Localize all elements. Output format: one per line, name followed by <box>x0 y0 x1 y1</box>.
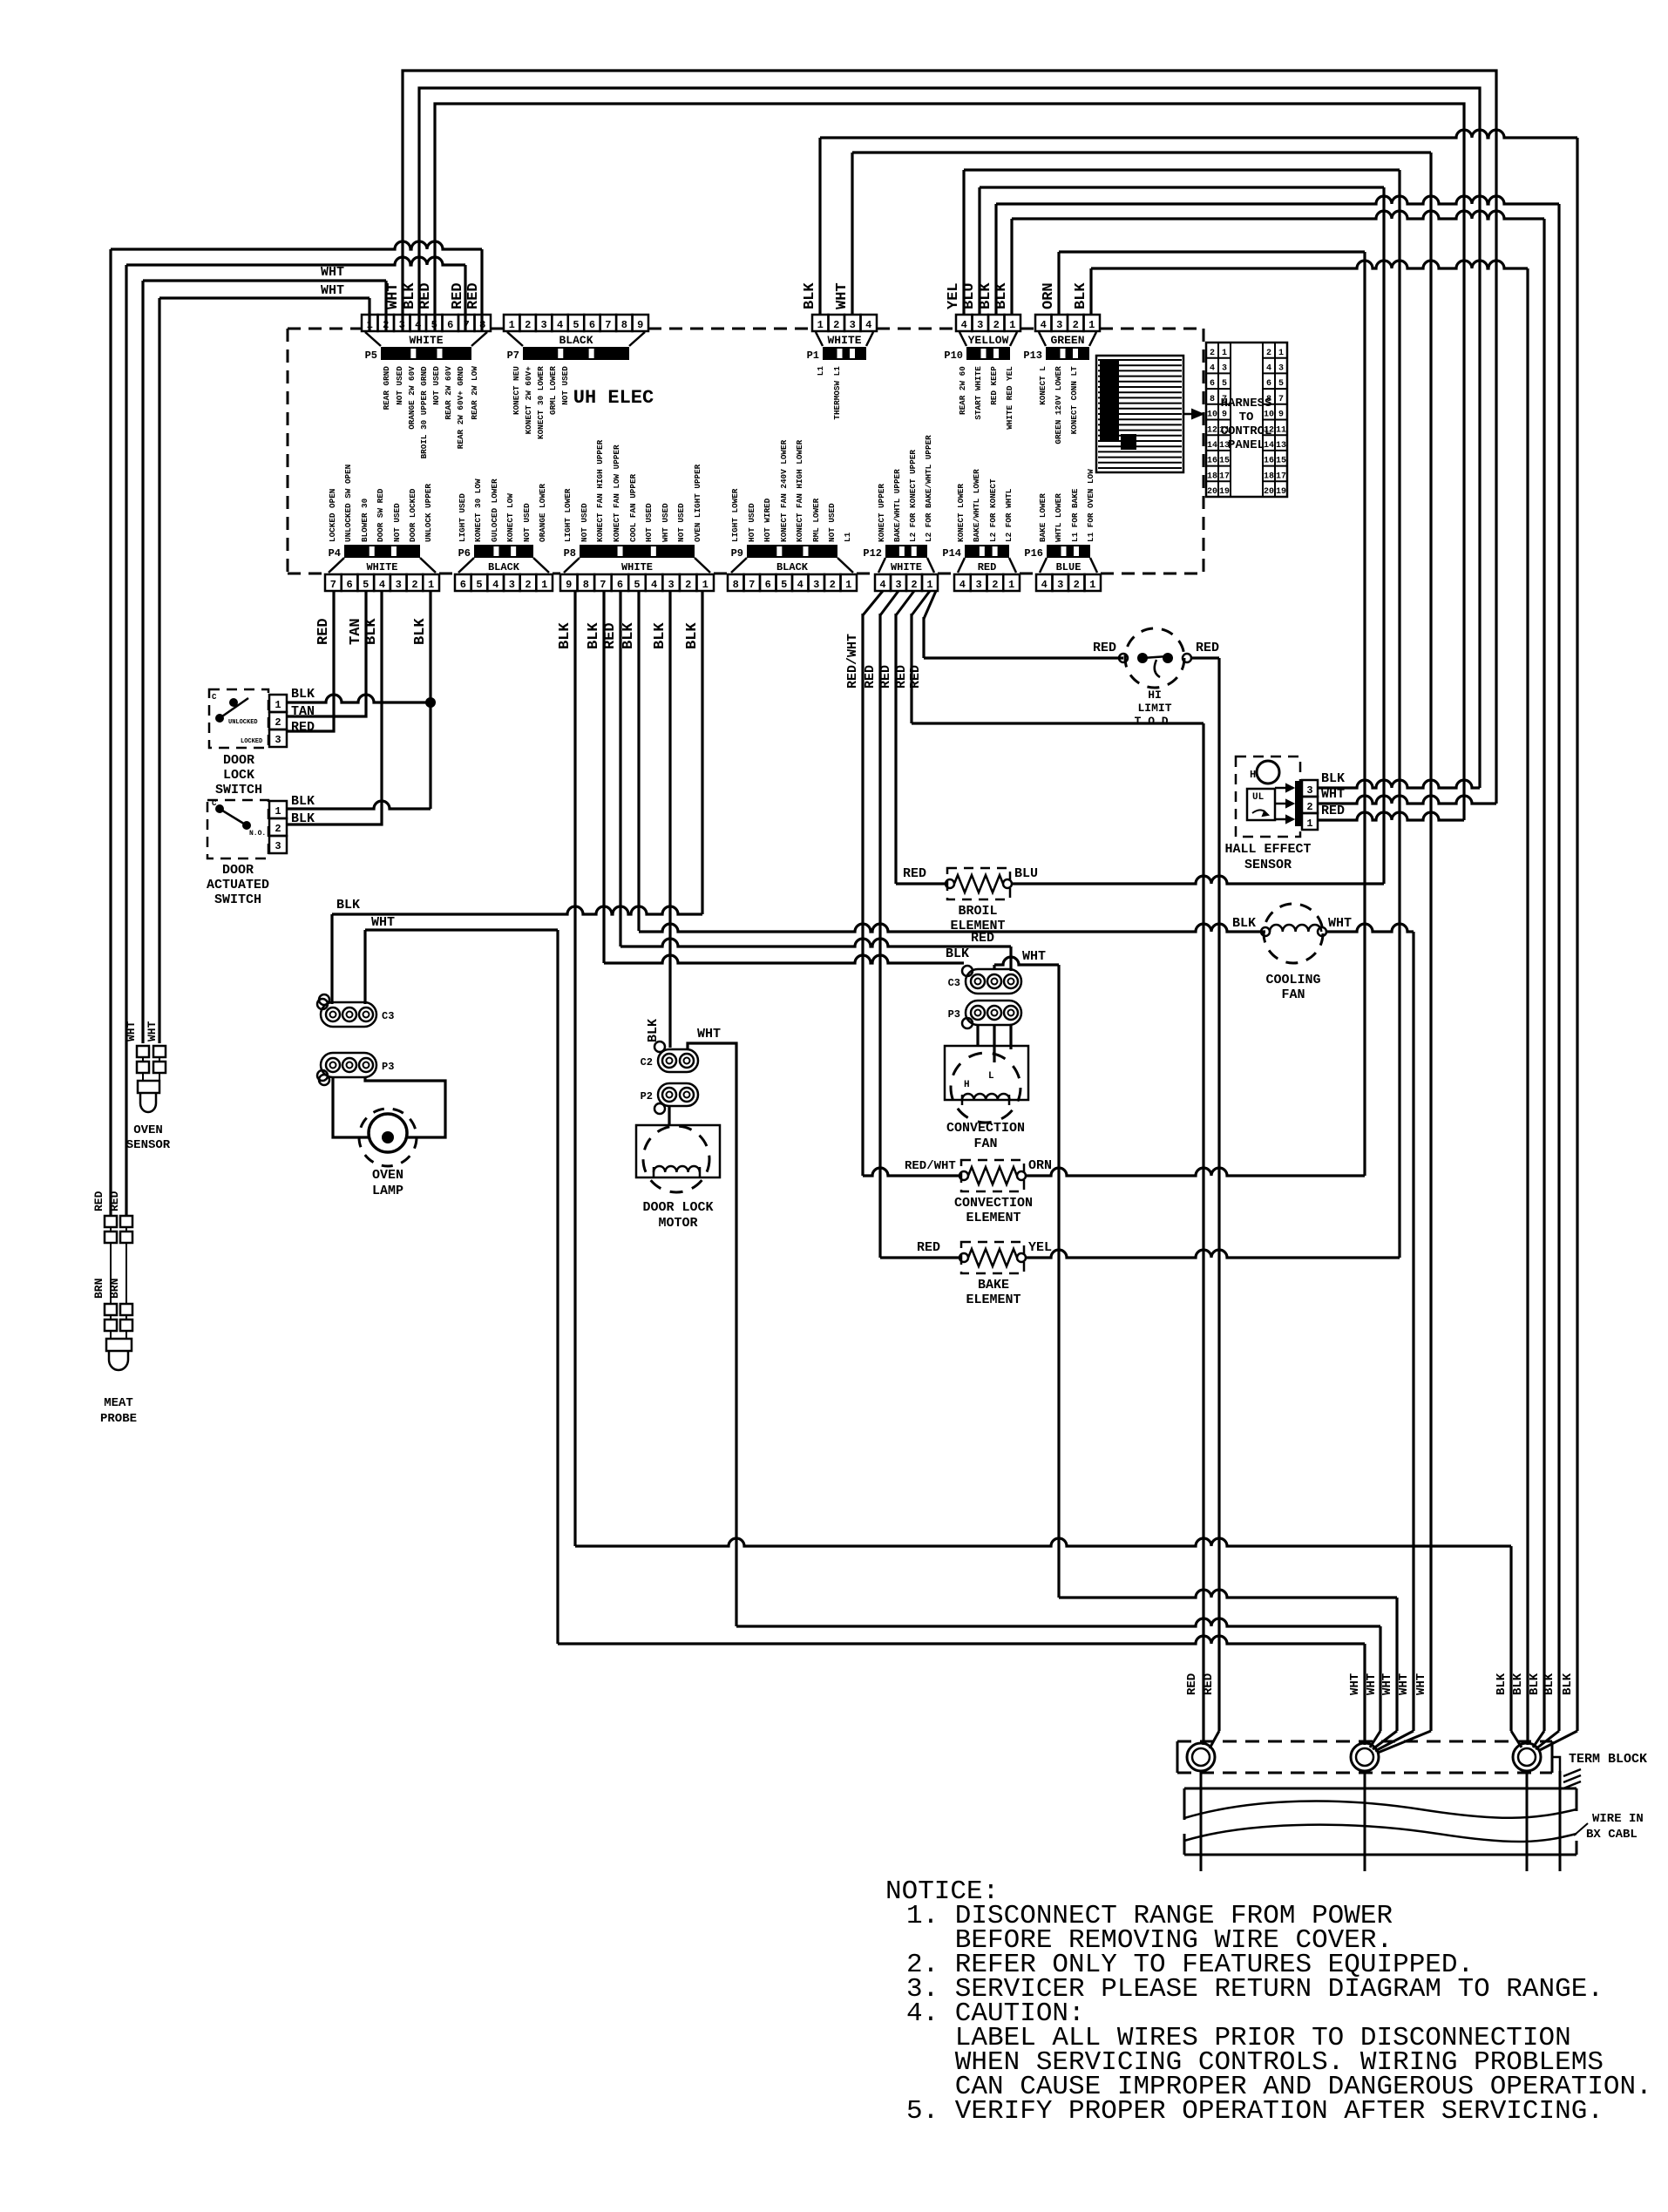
svg-text:P9: P9 <box>731 547 743 560</box>
svg-text:ORANGE LOWER: ORANGE LOWER <box>538 484 547 542</box>
svg-text:H: H <box>964 1080 970 1090</box>
svg-text:WHITE: WHITE <box>891 561 922 573</box>
svg-text:17: 17 <box>1219 472 1230 481</box>
svg-text:PANEL: PANEL <box>1228 438 1265 452</box>
svg-text:C2: C2 <box>641 1056 653 1069</box>
svg-text:9: 9 <box>1222 411 1227 420</box>
svg-text:C: C <box>212 799 217 808</box>
svg-text:2: 2 <box>1266 349 1271 358</box>
svg-text:1: 1 <box>1306 818 1312 830</box>
svg-text:BLK: BLK <box>412 618 429 645</box>
svg-text:2: 2 <box>411 579 417 591</box>
svg-text:1: 1 <box>541 579 547 591</box>
svg-text:BLK: BLK <box>1073 282 1089 309</box>
svg-text:KONECT L: KONECT L <box>1038 366 1048 405</box>
svg-text:RED: RED <box>978 561 997 573</box>
svg-text:BLK: BLK <box>646 1019 661 1042</box>
svg-text:17: 17 <box>1276 472 1286 481</box>
svg-text:YELLOW: YELLOW <box>968 334 1009 347</box>
svg-text:6: 6 <box>1266 379 1271 389</box>
svg-text:BLK: BLK <box>1561 1673 1575 1695</box>
svg-text:DOOR LOCKED: DOOR LOCKED <box>408 488 417 542</box>
svg-text:16: 16 <box>1207 457 1217 466</box>
svg-text:WHT: WHT <box>1022 949 1046 964</box>
svg-text:KONECT 30 LOW: KONECT 30 LOW <box>473 478 483 542</box>
svg-text:WHT: WHT <box>321 265 344 280</box>
svg-text:OVEN: OVEN <box>133 1123 163 1137</box>
svg-text:CONVECTION: CONVECTION <box>946 1121 1025 1136</box>
svg-text:WHTL LOWER: WHTL LOWER <box>1054 493 1063 542</box>
svg-text:BAKE/WHTL LOWER: BAKE/WHTL LOWER <box>972 469 981 542</box>
svg-text:3: 3 <box>1222 364 1227 374</box>
svg-text:OVEN: OVEN <box>372 1168 403 1183</box>
svg-text:2: 2 <box>1210 349 1215 358</box>
svg-text:2: 2 <box>833 319 839 331</box>
svg-text:2: 2 <box>1073 319 1079 331</box>
svg-text:WHT: WHT <box>1380 1673 1394 1695</box>
svg-text:7: 7 <box>600 579 606 591</box>
svg-text:KONECT NEU: KONECT NEU <box>512 366 521 415</box>
svg-text:TO: TO <box>1239 411 1254 424</box>
svg-text:18: 18 <box>1264 472 1274 481</box>
svg-text:3: 3 <box>976 579 982 591</box>
svg-text:WHITE: WHITE <box>621 561 653 573</box>
svg-text:HALL EFFECT: HALL EFFECT <box>1224 842 1311 857</box>
svg-text:L2 FOR KONECT UPPER: L2 FOR KONECT UPPER <box>908 450 918 542</box>
svg-text:THERMOSW L1: THERMOSW L1 <box>832 366 842 420</box>
svg-text:3: 3 <box>275 734 281 746</box>
svg-text:TAN: TAN <box>291 704 315 719</box>
svg-text:KONECT CONN LT: KONECT CONN LT <box>1069 366 1079 435</box>
svg-text:GULOCED LOWER: GULOCED LOWER <box>490 478 499 542</box>
svg-text:RED: RED <box>465 282 482 309</box>
svg-text:TAN: TAN <box>348 618 364 645</box>
svg-text:SWITCH: SWITCH <box>214 892 261 907</box>
svg-text:L1: L1 <box>843 532 852 542</box>
svg-text:BAKE LOWER: BAKE LOWER <box>1038 493 1048 542</box>
svg-text:3: 3 <box>813 579 819 591</box>
svg-text:NOT USED: NOT USED <box>676 503 686 542</box>
svg-text:START WHITE: START WHITE <box>973 366 983 420</box>
svg-text:RED: RED <box>291 720 315 735</box>
svg-text:GREEN 120V LOWER: GREEN 120V LOWER <box>1054 366 1063 444</box>
svg-text:KONECT UPPER: KONECT UPPER <box>877 484 886 542</box>
svg-text:BLK: BLK <box>1495 1673 1509 1695</box>
svg-text:TERM BLOCK: TERM BLOCK <box>1569 1752 1647 1767</box>
svg-text:2: 2 <box>525 579 531 591</box>
svg-text:9: 9 <box>1278 411 1284 420</box>
svg-text:6: 6 <box>460 579 466 591</box>
svg-text:RED: RED <box>878 665 893 689</box>
svg-text:P16: P16 <box>1024 547 1043 560</box>
svg-text:4: 4 <box>492 579 498 591</box>
svg-text:DOOR SW RED: DOOR SW RED <box>376 488 385 542</box>
svg-text:1: 1 <box>817 319 824 331</box>
svg-text:12: 12 <box>1207 425 1217 435</box>
svg-text:1: 1 <box>926 579 932 591</box>
svg-text:RED: RED <box>1093 641 1116 655</box>
svg-text:1: 1 <box>1088 319 1095 331</box>
svg-text:9: 9 <box>566 579 572 591</box>
svg-text:C3: C3 <box>382 1010 394 1022</box>
svg-text:2: 2 <box>525 319 531 331</box>
svg-text:WHT: WHT <box>1414 1673 1428 1695</box>
svg-text:BLK: BLK <box>993 282 1010 309</box>
svg-text:3: 3 <box>1278 364 1284 374</box>
svg-text:N.O.: N.O. <box>249 830 266 838</box>
svg-text:2: 2 <box>275 716 281 729</box>
svg-text:8: 8 <box>583 579 589 591</box>
svg-text:1: 1 <box>845 579 851 591</box>
svg-text:1: 1 <box>702 579 709 591</box>
svg-text:UL: UL <box>1252 792 1265 803</box>
svg-text:ELEMENT: ELEMENT <box>966 1293 1020 1307</box>
svg-text:LIGHT USED: LIGHT USED <box>458 493 467 542</box>
svg-text:RED: RED <box>1321 804 1345 818</box>
svg-text:RED: RED <box>863 665 878 689</box>
svg-text:2: 2 <box>993 319 1000 331</box>
svg-text:L2 FOR WHTL: L2 FOR WHTL <box>1004 488 1014 542</box>
svg-text:L2 FOR KONECT: L2 FOR KONECT <box>988 478 998 542</box>
svg-text:SENSOR: SENSOR <box>1244 858 1292 872</box>
svg-text:1: 1 <box>428 579 434 591</box>
svg-text:GRML LOWER: GRML LOWER <box>548 366 558 415</box>
svg-text:WHT: WHT <box>146 1021 159 1042</box>
svg-text:RED: RED <box>971 931 994 946</box>
svg-text:6: 6 <box>617 579 623 591</box>
svg-text:3: 3 <box>1057 579 1063 591</box>
svg-text:5: 5 <box>363 579 369 591</box>
svg-text:BLK: BLK <box>291 794 315 809</box>
svg-text:BROIL: BROIL <box>958 904 997 919</box>
svg-text:15: 15 <box>1219 457 1230 466</box>
svg-text:KONECT FAN HIGH LOWER: KONECT FAN HIGH LOWER <box>795 439 804 542</box>
svg-text:BLK: BLK <box>802 282 818 309</box>
svg-text:LOCKED: LOCKED <box>241 738 262 745</box>
svg-text:LOCKED OPEN: LOCKED OPEN <box>328 489 337 542</box>
svg-text:YEL: YEL <box>946 282 962 309</box>
svg-text:P12: P12 <box>863 547 882 560</box>
svg-text:1: 1 <box>509 319 515 331</box>
svg-text:C: C <box>212 693 217 702</box>
svg-text:RED: RED <box>315 618 332 645</box>
svg-text:RED: RED <box>450 282 466 309</box>
svg-text:RED: RED <box>903 866 926 881</box>
svg-text:REAR 2W LOW: REAR 2W LOW <box>470 366 479 420</box>
svg-text:BLOWER 30: BLOWER 30 <box>360 498 370 542</box>
svg-text:P6: P6 <box>458 547 471 560</box>
svg-text:7: 7 <box>1278 395 1284 404</box>
svg-text:PROBE: PROBE <box>100 1412 137 1426</box>
svg-text:HOT USED: HOT USED <box>747 503 756 542</box>
svg-text:1: 1 <box>1222 349 1227 358</box>
svg-text:19: 19 <box>1219 487 1230 497</box>
svg-text:3: 3 <box>396 579 402 591</box>
svg-text:BLK: BLK <box>652 622 668 649</box>
svg-text:RED: RED <box>1202 1673 1216 1695</box>
svg-text:BLK: BLK <box>291 687 315 702</box>
svg-text:BLK: BLK <box>586 622 602 649</box>
svg-text:RED: RED <box>1185 1673 1199 1695</box>
svg-text:BLK: BLK <box>336 898 360 913</box>
svg-text:4: 4 <box>959 579 966 591</box>
svg-text:REAR 2W 60V+ GRND: REAR 2W 60V+ GRND <box>456 366 465 449</box>
svg-text:H: H <box>1250 769 1256 781</box>
svg-text:P2: P2 <box>641 1090 653 1103</box>
svg-text:HOT WIRED: HOT WIRED <box>763 498 772 542</box>
svg-text:WHITE RED YEL: WHITE RED YEL <box>1005 366 1014 430</box>
svg-text:RED: RED <box>917 1240 940 1255</box>
svg-text:WHT: WHT <box>125 1021 138 1042</box>
svg-text:1: 1 <box>1089 579 1095 591</box>
svg-text:P4: P4 <box>329 547 341 560</box>
svg-text:LOCK: LOCK <box>223 768 254 783</box>
svg-text:P10: P10 <box>944 349 963 362</box>
svg-text:WHT: WHT <box>321 283 344 298</box>
svg-text:WHITE: WHITE <box>409 334 443 347</box>
svg-text:KONECT 2W 60V+: KONECT 2W 60V+ <box>524 366 533 435</box>
svg-text:NOT USED: NOT USED <box>431 366 441 405</box>
svg-text:UNLOCKED: UNLOCKED <box>228 719 258 726</box>
svg-text:3: 3 <box>668 579 675 591</box>
svg-text:BLK: BLK <box>363 618 380 645</box>
svg-text:KONECT FAN LOW UPPER: KONECT FAN LOW UPPER <box>612 444 621 542</box>
svg-text:L1 FOR OVEN LOW: L1 FOR OVEN LOW <box>1086 469 1095 542</box>
svg-text:4: 4 <box>1210 364 1215 374</box>
svg-text:3: 3 <box>977 319 983 331</box>
svg-text:RED/WHT: RED/WHT <box>845 634 860 689</box>
svg-text:2: 2 <box>830 579 836 591</box>
svg-text:2: 2 <box>275 823 281 835</box>
svg-text:CONVECTION: CONVECTION <box>954 1196 1033 1211</box>
svg-text:NOT USED: NOT USED <box>580 503 589 542</box>
svg-text:LIGHT LOWER: LIGHT LOWER <box>563 488 573 542</box>
svg-text:RED/WHT: RED/WHT <box>905 1159 956 1173</box>
svg-text:4: 4 <box>379 579 385 591</box>
svg-text:L1 FOR BAKE: L1 FOR BAKE <box>1070 488 1080 542</box>
svg-text:WHT: WHT <box>834 282 851 309</box>
svg-text:3: 3 <box>509 579 515 591</box>
svg-text:5. VERIFY PROPER OPERATION AFT: 5. VERIFY PROPER OPERATION AFTER SERVICI… <box>906 2096 1604 2127</box>
svg-text:BLK: BLK <box>684 622 701 649</box>
svg-text:WHT: WHT <box>385 282 402 309</box>
svg-text:ELEMENT: ELEMENT <box>966 1211 1020 1225</box>
svg-text:WHT: WHT <box>1321 787 1345 802</box>
svg-text:6: 6 <box>1210 379 1215 389</box>
svg-text:18: 18 <box>1207 472 1217 481</box>
svg-text:YEL: YEL <box>1028 1240 1052 1255</box>
svg-text:WHT: WHT <box>1397 1673 1411 1695</box>
svg-text:3: 3 <box>850 319 856 331</box>
svg-text:WHITE: WHITE <box>827 334 861 347</box>
svg-text:1: 1 <box>1008 579 1014 591</box>
svg-text:FAN: FAN <box>973 1137 997 1151</box>
svg-text:RML LOWER: RML LOWER <box>811 498 821 542</box>
svg-text:P8: P8 <box>564 547 576 560</box>
svg-text:NOT USED: NOT USED <box>392 503 402 542</box>
svg-text:RED: RED <box>894 665 909 689</box>
svg-text:6: 6 <box>447 319 453 331</box>
svg-text:1: 1 <box>275 699 281 711</box>
svg-text:DOOR: DOOR <box>223 753 254 768</box>
svg-text:REAR 2W 60V: REAR 2W 60V <box>444 366 453 420</box>
svg-text:4: 4 <box>1041 319 1047 331</box>
svg-text:RED: RED <box>108 1191 121 1211</box>
svg-text:6: 6 <box>589 319 595 331</box>
svg-text:KONECT FAN HIGH UPPER: KONECT FAN HIGH UPPER <box>595 439 605 542</box>
svg-text:5: 5 <box>781 579 787 591</box>
svg-text:KONECT 30 LOWER: KONECT 30 LOWER <box>536 366 546 439</box>
svg-text:WHITE: WHITE <box>366 561 397 573</box>
svg-text:1: 1 <box>1278 349 1284 358</box>
svg-text:19: 19 <box>1276 487 1286 497</box>
svg-text:HARNESS: HARNESS <box>1221 397 1272 411</box>
svg-text:3: 3 <box>541 319 547 331</box>
svg-text:15: 15 <box>1276 457 1286 466</box>
svg-text:2: 2 <box>911 579 917 591</box>
svg-text:16: 16 <box>1264 457 1274 466</box>
svg-text:CONTROL: CONTROL <box>1221 424 1272 438</box>
svg-text:RED KEEP: RED KEEP <box>989 366 999 405</box>
svg-text:P14: P14 <box>942 547 961 560</box>
svg-text:9: 9 <box>637 319 643 331</box>
svg-text:P3: P3 <box>382 1061 394 1073</box>
svg-text:6: 6 <box>765 579 771 591</box>
svg-text:BLK: BLK <box>557 622 573 649</box>
svg-text:5: 5 <box>634 579 640 591</box>
svg-text:COOLING: COOLING <box>1265 973 1320 987</box>
svg-text:DOOR: DOOR <box>222 863 254 878</box>
svg-text:3: 3 <box>895 579 901 591</box>
svg-text:BLACK: BLACK <box>559 334 593 347</box>
svg-text:MEAT: MEAT <box>104 1396 133 1410</box>
svg-text:RED: RED <box>92 1191 105 1211</box>
svg-text:3: 3 <box>1056 319 1062 331</box>
svg-text:BLK: BLK <box>620 622 637 649</box>
svg-text:5: 5 <box>573 319 579 331</box>
svg-text:20: 20 <box>1264 487 1274 497</box>
svg-text:NOT USED: NOT USED <box>522 503 532 542</box>
svg-text:ORN: ORN <box>1028 1158 1052 1173</box>
svg-text:3: 3 <box>1306 784 1312 797</box>
svg-text:ORN: ORN <box>1041 282 1057 309</box>
svg-text:2: 2 <box>685 579 691 591</box>
svg-text:BLK: BLK <box>946 947 969 961</box>
svg-text:SWITCH: SWITCH <box>215 783 262 797</box>
svg-text:13: 13 <box>1276 441 1286 451</box>
svg-text:BLU: BLU <box>961 282 978 309</box>
svg-text:5: 5 <box>1222 379 1227 389</box>
svg-text:WHT: WHT <box>1328 916 1352 931</box>
svg-text:BLACK: BLACK <box>776 561 809 573</box>
svg-text:5: 5 <box>476 579 482 591</box>
svg-text:BLU: BLU <box>1014 866 1038 881</box>
svg-text:L2 FOR BAKE/WHTL UPPER: L2 FOR BAKE/WHTL UPPER <box>924 435 933 542</box>
svg-text:8: 8 <box>1210 395 1215 404</box>
svg-text:4: 4 <box>1266 364 1271 374</box>
svg-text:RED: RED <box>417 282 434 309</box>
svg-text:P3: P3 <box>948 1008 960 1021</box>
svg-text:NOT USED: NOT USED <box>827 503 837 542</box>
svg-text:4: 4 <box>865 319 871 331</box>
svg-text:L: L <box>988 1071 994 1082</box>
svg-text:NOT USED: NOT USED <box>395 366 404 405</box>
svg-text:WHT USED: WHT USED <box>661 503 670 542</box>
svg-text:WIRE IN: WIRE IN <box>1592 1812 1644 1826</box>
svg-text:4: 4 <box>651 579 657 591</box>
svg-text:HI: HI <box>1148 689 1162 702</box>
svg-text:P1: P1 <box>807 349 819 362</box>
svg-text:WHT: WHT <box>697 1027 721 1042</box>
svg-text:BLK: BLK <box>1511 1673 1525 1695</box>
svg-text:BROIL 30 UPPER GRND: BROIL 30 UPPER GRND <box>419 366 429 458</box>
svg-text:UNLOCK UPPER: UNLOCK UPPER <box>424 484 433 542</box>
svg-text:7: 7 <box>330 579 336 591</box>
svg-text:BLK: BLK <box>1232 916 1256 931</box>
svg-text:P7: P7 <box>507 349 519 362</box>
svg-text:WHT: WHT <box>371 915 395 930</box>
svg-text:BLK: BLK <box>1528 1673 1542 1695</box>
svg-text:ORANGE 2W 60V: ORANGE 2W 60V <box>407 366 417 430</box>
svg-text:4: 4 <box>797 579 803 591</box>
svg-text:DOOR LOCK: DOOR LOCK <box>642 1200 713 1215</box>
svg-text:KONECT LOWER: KONECT LOWER <box>956 484 966 542</box>
svg-text:BLK: BLK <box>1543 1673 1556 1695</box>
svg-text:LIMIT: LIMIT <box>1137 702 1171 715</box>
svg-text:4: 4 <box>879 579 885 591</box>
svg-text:REAR 2W 60: REAR 2W 60 <box>958 366 967 415</box>
svg-text:14: 14 <box>1207 441 1217 451</box>
svg-text:MOTOR: MOTOR <box>658 1216 697 1231</box>
svg-text:BRN: BRN <box>92 1279 105 1299</box>
svg-text:COOL FAN UPPER: COOL FAN UPPER <box>628 473 638 542</box>
svg-text:FAN: FAN <box>1281 987 1305 1002</box>
svg-text:7: 7 <box>749 579 755 591</box>
svg-text:BAKE: BAKE <box>978 1278 1009 1293</box>
svg-text:UH ELEC: UH ELEC <box>573 387 654 409</box>
svg-text:BX CABL: BX CABL <box>1586 1828 1637 1842</box>
svg-text:HOT USED: HOT USED <box>644 503 654 542</box>
svg-text:BAKE/WHTL UPPER: BAKE/WHTL UPPER <box>892 469 902 542</box>
svg-text:6: 6 <box>346 579 352 591</box>
svg-text:RED: RED <box>908 665 923 689</box>
svg-text:OVEN LIGHT UPPER: OVEN LIGHT UPPER <box>693 464 702 542</box>
svg-text:C3: C3 <box>948 977 960 989</box>
svg-text:P5: P5 <box>365 349 377 362</box>
svg-text:L1: L1 <box>816 366 825 377</box>
svg-text:2: 2 <box>1074 579 1080 591</box>
svg-text:RED: RED <box>1196 641 1219 655</box>
svg-text:RED: RED <box>602 622 619 649</box>
svg-text:WHT: WHT <box>1365 1673 1379 1695</box>
svg-text:NOT USED: NOT USED <box>560 366 570 405</box>
svg-text:10: 10 <box>1207 411 1217 420</box>
svg-text:T.O.D.: T.O.D. <box>1135 715 1176 728</box>
svg-text:8: 8 <box>621 319 627 331</box>
svg-text:LIGHT LOWER: LIGHT LOWER <box>730 488 740 542</box>
svg-text:8: 8 <box>733 579 739 591</box>
svg-text:BLACK: BLACK <box>488 561 520 573</box>
svg-text:14: 14 <box>1264 441 1274 451</box>
svg-text:UNLOCKED SW OPEN: UNLOCKED SW OPEN <box>343 465 353 542</box>
svg-text:BLK: BLK <box>978 282 994 309</box>
svg-text:2: 2 <box>992 579 998 591</box>
svg-text:4: 4 <box>1041 579 1048 591</box>
svg-text:BLK: BLK <box>1321 771 1345 786</box>
svg-text:SENSOR: SENSOR <box>126 1138 171 1152</box>
svg-text:1: 1 <box>275 805 281 818</box>
svg-text:4: 4 <box>961 319 967 331</box>
